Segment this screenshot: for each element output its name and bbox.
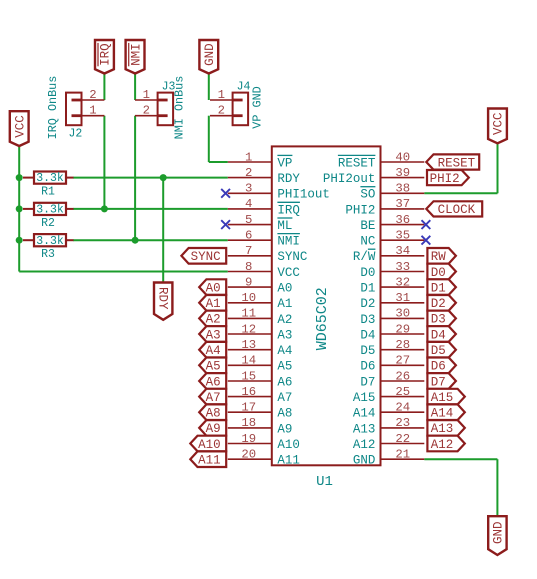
label D2 (pin 31) bbox=[427, 295, 456, 311]
svg-text:2: 2 bbox=[218, 104, 225, 118]
label A9 (pin 18) bbox=[199, 420, 226, 436]
svg-text:A13: A13 bbox=[431, 422, 454, 436]
svg-text:A4: A4 bbox=[277, 344, 292, 358]
svg-text:A6: A6 bbox=[277, 375, 292, 389]
label RESET (pin 40) bbox=[426, 154, 479, 170]
wire NMI flag stem to J3 pin 1 bbox=[134, 73, 136, 100]
label A7 (pin 16) bbox=[199, 389, 226, 405]
svg-text:NMI OnBus: NMI OnBus bbox=[173, 76, 187, 140]
wire R3 output to CPU pin 6 (NMI net) bbox=[73, 239, 228, 241]
label RW (pin 34) bbox=[427, 248, 456, 264]
svg-text:15: 15 bbox=[241, 369, 256, 383]
svg-text:D0: D0 bbox=[431, 266, 446, 280]
svg-text:PHI2: PHI2 bbox=[345, 203, 375, 217]
label D1 (pin 32) bbox=[427, 279, 456, 295]
svg-text:R1: R1 bbox=[41, 186, 55, 199]
svg-text:D4: D4 bbox=[360, 328, 375, 342]
label D4 (pin 29) bbox=[427, 326, 456, 342]
svg-text:1: 1 bbox=[143, 88, 150, 102]
svg-text:BE: BE bbox=[360, 219, 375, 233]
svg-text:A9: A9 bbox=[206, 422, 221, 436]
svg-text:PHI2: PHI2 bbox=[430, 172, 460, 186]
svg-text:A7: A7 bbox=[277, 391, 292, 405]
svg-text:34: 34 bbox=[395, 244, 410, 258]
pin 12 A3 (left) bbox=[228, 322, 293, 342]
label A14 (pin 24) bbox=[427, 404, 464, 420]
svg-text:A8: A8 bbox=[206, 407, 221, 421]
pin 37 PHI2 (right) bbox=[345, 197, 424, 217]
svg-text:A10: A10 bbox=[277, 438, 300, 452]
svg-text:D5: D5 bbox=[431, 344, 446, 358]
svg-text:A15: A15 bbox=[431, 391, 454, 405]
svg-text:9: 9 bbox=[245, 275, 252, 289]
pin 28 D5 (right) bbox=[360, 338, 424, 358]
flag NMI bbox=[126, 40, 145, 74]
connector J2 bbox=[46, 76, 105, 141]
connector J4 bbox=[210, 81, 264, 129]
svg-text:VP: VP bbox=[277, 156, 292, 170]
pin 16 A7 (left) bbox=[228, 385, 293, 405]
svg-text:WD65C02: WD65C02 bbox=[314, 287, 331, 350]
svg-text:A12: A12 bbox=[353, 438, 376, 452]
svg-text:CLOCK: CLOCK bbox=[438, 203, 476, 217]
pin 21 GND (right) bbox=[353, 448, 424, 468]
svg-text:23: 23 bbox=[395, 416, 410, 430]
svg-text:20: 20 bbox=[241, 448, 256, 462]
svg-text:29: 29 bbox=[395, 322, 410, 336]
svg-text:30: 30 bbox=[395, 307, 410, 321]
svg-text:VCC: VCC bbox=[277, 266, 300, 280]
label D3 (pin 30) bbox=[427, 311, 456, 327]
svg-text:NMI: NMI bbox=[277, 235, 300, 249]
pin 23 A13 (right) bbox=[353, 416, 424, 436]
svg-text:PHI1out: PHI1out bbox=[277, 188, 330, 202]
wire VCC right flag down and left to CPU pin 38 (SO) bbox=[424, 144, 497, 194]
svg-text:16: 16 bbox=[241, 385, 256, 399]
svg-text:GND: GND bbox=[203, 43, 217, 66]
svg-text:A1: A1 bbox=[277, 297, 292, 311]
pin 26 D7 (right) bbox=[360, 369, 424, 389]
svg-text:13: 13 bbox=[241, 338, 256, 352]
junction VCC rail / R2 bbox=[16, 205, 23, 212]
svg-text:A0: A0 bbox=[206, 281, 221, 295]
svg-text:U1: U1 bbox=[316, 474, 333, 490]
label A6 (pin 15) bbox=[199, 373, 226, 389]
wire RDY drop from R1 net down to RDY flag bbox=[162, 178, 164, 283]
label A13 (pin 23) bbox=[427, 420, 464, 436]
wire R2 output to CPU pin 4 (IRQ net) bbox=[73, 208, 228, 210]
svg-text:J4: J4 bbox=[237, 81, 251, 94]
svg-text:A11: A11 bbox=[277, 454, 300, 468]
svg-text:D1: D1 bbox=[431, 281, 446, 295]
svg-text:SYNC: SYNC bbox=[191, 250, 221, 264]
svg-text:R/W: R/W bbox=[353, 250, 376, 264]
svg-text:38: 38 bbox=[395, 182, 410, 196]
pin 7 SYNC (left) bbox=[228, 244, 308, 264]
svg-text:19: 19 bbox=[241, 432, 256, 446]
svg-text:IRQ: IRQ bbox=[277, 203, 300, 217]
pin 30 D3 (right) bbox=[360, 307, 424, 327]
svg-text:A14: A14 bbox=[353, 407, 376, 421]
svg-text:A15: A15 bbox=[353, 391, 376, 405]
svg-text:D0: D0 bbox=[360, 266, 375, 280]
pin 25 A15 (right) bbox=[353, 385, 424, 405]
label SYNC (pin 7) bbox=[181, 248, 226, 264]
pin 2 RDY (left) bbox=[228, 166, 301, 186]
label A10 (pin 19) bbox=[190, 436, 226, 452]
svg-text:R2: R2 bbox=[41, 217, 55, 230]
wire J2 pin 1 down to IRQ net junction bbox=[103, 116, 105, 209]
svg-text:33: 33 bbox=[395, 260, 410, 274]
svg-text:RDY: RDY bbox=[155, 287, 169, 310]
pin 32 D1 (right) bbox=[360, 275, 424, 295]
svg-text:GND: GND bbox=[353, 454, 376, 468]
svg-text:D3: D3 bbox=[360, 313, 375, 327]
svg-text:IRQ OnBus: IRQ OnBus bbox=[46, 76, 60, 140]
pin 22 A12 (right) bbox=[353, 432, 424, 452]
pin 5 ML (left) bbox=[228, 213, 293, 233]
svg-text:RESET: RESET bbox=[438, 156, 476, 170]
svg-text:1: 1 bbox=[218, 88, 225, 102]
svg-text:D3: D3 bbox=[431, 313, 446, 327]
pin 38 SO (right) bbox=[360, 182, 424, 202]
svg-text:27: 27 bbox=[395, 354, 410, 368]
svg-text:A5: A5 bbox=[206, 360, 221, 374]
svg-text:1: 1 bbox=[245, 150, 252, 164]
svg-text:12: 12 bbox=[241, 322, 256, 336]
pin 17 A8 (left) bbox=[228, 401, 293, 421]
label CLOCK (pin 37) bbox=[426, 201, 482, 217]
label A12 (pin 22) bbox=[427, 436, 464, 452]
pin 1 VP (left) bbox=[228, 150, 293, 170]
svg-text:28: 28 bbox=[395, 338, 410, 352]
junction RDY net bbox=[160, 174, 167, 181]
svg-text:A2: A2 bbox=[277, 313, 292, 327]
junction NMI net / J3 bbox=[132, 237, 139, 244]
no-connect pin 3 PHI1out bbox=[221, 189, 230, 198]
pin 20 A11 (left) bbox=[228, 448, 300, 468]
connector J3 bbox=[135, 76, 187, 140]
wire J4 pin 2 down and right to CPU pin 1 (VP) bbox=[209, 116, 228, 162]
svg-text:2: 2 bbox=[89, 88, 96, 102]
svg-text:D4: D4 bbox=[431, 328, 446, 342]
label A11 (pin 20) bbox=[190, 451, 226, 467]
no-connect pin 36 BE bbox=[422, 220, 431, 229]
svg-text:14: 14 bbox=[241, 354, 256, 368]
svg-text:2: 2 bbox=[143, 104, 150, 118]
svg-text:RDY: RDY bbox=[277, 172, 300, 186]
wire J3 pin 2 down to NMI net junction bbox=[134, 116, 136, 241]
svg-text:3.3k: 3.3k bbox=[36, 172, 64, 185]
svg-text:17: 17 bbox=[241, 401, 256, 415]
svg-text:VCC: VCC bbox=[13, 115, 27, 138]
svg-text:A12: A12 bbox=[431, 438, 454, 452]
svg-text:A3: A3 bbox=[206, 328, 221, 342]
pin 3 PHI1out (left) bbox=[228, 182, 330, 202]
wire R1 output to CPU pin 2 (RDY net) bbox=[73, 177, 228, 179]
svg-text:32: 32 bbox=[395, 275, 410, 289]
label A3 (pin 12) bbox=[199, 326, 226, 342]
svg-text:3.3k: 3.3k bbox=[36, 235, 64, 248]
pin 4 IRQ (left) bbox=[228, 197, 300, 217]
pin 24 A14 (right) bbox=[353, 401, 424, 421]
svg-text:A0: A0 bbox=[277, 282, 292, 296]
pin 35 NC (right) bbox=[360, 229, 424, 249]
power flag GND bottom-right bbox=[488, 516, 506, 555]
svg-text:39: 39 bbox=[395, 166, 410, 180]
svg-text:NC: NC bbox=[360, 235, 375, 249]
label D6 (pin 27) bbox=[427, 358, 456, 374]
pin 29 D4 (right) bbox=[360, 322, 424, 342]
pin 19 A10 (left) bbox=[228, 432, 300, 452]
svg-text:31: 31 bbox=[395, 291, 410, 305]
svg-text:VCC: VCC bbox=[492, 112, 506, 135]
resistor R2 3.3k bbox=[23, 203, 74, 230]
label A15 (pin 25) bbox=[427, 389, 464, 405]
svg-text:NMI: NMI bbox=[129, 43, 143, 66]
label A8 (pin 17) bbox=[199, 404, 226, 420]
pin 33 D0 (right) bbox=[360, 260, 424, 280]
label PHI2 (pin 39) bbox=[427, 170, 469, 186]
label D0 (pin 33) bbox=[427, 264, 456, 280]
power flag GND top bbox=[199, 40, 218, 74]
svg-text:D2: D2 bbox=[360, 297, 375, 311]
pin 11 A2 (left) bbox=[228, 307, 293, 327]
pin 31 D2 (right) bbox=[360, 291, 424, 311]
svg-text:A11: A11 bbox=[198, 454, 221, 468]
svg-text:A2: A2 bbox=[206, 313, 221, 327]
svg-text:11: 11 bbox=[241, 307, 256, 321]
svg-text:SO: SO bbox=[360, 188, 375, 202]
svg-text:A13: A13 bbox=[353, 422, 376, 436]
svg-text:RW: RW bbox=[431, 250, 447, 264]
svg-text:A10: A10 bbox=[198, 438, 221, 452]
svg-text:A9: A9 bbox=[277, 422, 292, 436]
label A0 (pin 9) bbox=[199, 279, 226, 295]
svg-text:A7: A7 bbox=[206, 391, 221, 405]
op CPU U1 WD65C02 body bbox=[272, 146, 381, 490]
pin 36 BE (right) bbox=[360, 213, 424, 233]
resistor R1 3.3k bbox=[23, 172, 74, 199]
wire VCC rail from VCC flag down to pin8 row bbox=[19, 146, 228, 272]
pin 40 RESET (right) bbox=[338, 150, 424, 170]
svg-text:21: 21 bbox=[395, 448, 410, 462]
svg-text:ML: ML bbox=[277, 219, 292, 233]
pin 39 PHI2out (right) bbox=[323, 166, 424, 186]
wire GND flag stem to J4 pin 1 bbox=[208, 73, 210, 100]
svg-text:RESET: RESET bbox=[338, 156, 376, 170]
svg-text:36: 36 bbox=[395, 213, 410, 227]
pin 27 D6 (right) bbox=[360, 354, 424, 374]
svg-text:D2: D2 bbox=[431, 297, 446, 311]
svg-text:18: 18 bbox=[241, 416, 256, 430]
svg-text:2: 2 bbox=[245, 166, 252, 180]
wire IRQ flag stem to J2 pin 2 bbox=[103, 73, 105, 100]
svg-text:VP GND: VP GND bbox=[250, 86, 264, 128]
label D5 (pin 28) bbox=[427, 342, 456, 358]
svg-text:A8: A8 bbox=[277, 407, 292, 421]
pin 13 A4 (left) bbox=[228, 338, 293, 358]
no-connect pin 5 ML bbox=[221, 220, 230, 229]
svg-text:7: 7 bbox=[245, 244, 252, 258]
svg-text:D7: D7 bbox=[431, 375, 446, 389]
svg-text:3: 3 bbox=[245, 182, 252, 196]
svg-text:40: 40 bbox=[395, 150, 410, 164]
pin 18 A9 (left) bbox=[228, 416, 293, 436]
svg-text:26: 26 bbox=[395, 369, 410, 383]
svg-text:D5: D5 bbox=[360, 344, 375, 358]
svg-text:37: 37 bbox=[395, 197, 410, 211]
svg-text:6: 6 bbox=[245, 229, 252, 243]
pin 8 VCC (left) bbox=[228, 260, 300, 280]
label A1 (pin 10) bbox=[199, 295, 226, 311]
svg-text:35: 35 bbox=[395, 229, 410, 243]
svg-text:SYNC: SYNC bbox=[277, 250, 307, 264]
svg-text:A5: A5 bbox=[277, 360, 292, 374]
pin 6 NMI (left) bbox=[228, 229, 300, 249]
svg-text:4: 4 bbox=[245, 197, 252, 211]
pin 10 A1 (left) bbox=[228, 291, 293, 311]
svg-text:IRQ: IRQ bbox=[99, 43, 113, 66]
svg-text:D7: D7 bbox=[360, 375, 375, 389]
label A2 (pin 11) bbox=[199, 311, 226, 327]
svg-text:25: 25 bbox=[395, 385, 410, 399]
pin 9 A0 (left) bbox=[228, 275, 293, 295]
svg-text:R3: R3 bbox=[41, 248, 55, 261]
svg-text:1: 1 bbox=[89, 104, 96, 118]
svg-text:GND: GND bbox=[492, 521, 506, 544]
svg-text:5: 5 bbox=[245, 213, 252, 227]
svg-text:22: 22 bbox=[395, 432, 410, 446]
svg-text:A4: A4 bbox=[206, 344, 221, 358]
svg-text:A1: A1 bbox=[206, 297, 221, 311]
no-connect pin 35 NC bbox=[422, 236, 431, 245]
svg-text:D1: D1 bbox=[360, 282, 375, 296]
pin 34 R/W (right) bbox=[353, 244, 424, 264]
svg-text:8: 8 bbox=[245, 260, 252, 274]
svg-text:A3: A3 bbox=[277, 328, 292, 342]
flag RDY (hanging) bbox=[154, 283, 172, 320]
pin 14 A5 (left) bbox=[228, 354, 293, 374]
svg-text:24: 24 bbox=[395, 401, 410, 415]
svg-text:A14: A14 bbox=[431, 407, 454, 421]
junction IRQ net / J2 bbox=[101, 205, 108, 212]
label A4 (pin 13) bbox=[199, 342, 226, 358]
junction VCC rail / R3 bbox=[16, 237, 23, 244]
svg-text:D6: D6 bbox=[360, 360, 375, 374]
label D7 (pin 26) bbox=[427, 373, 456, 389]
wire CPU pin 21 (GND) right and down to GND flag bbox=[424, 459, 497, 516]
flag IRQ bbox=[95, 40, 114, 74]
power flag VCC top-right bbox=[488, 109, 507, 144]
svg-text:J2: J2 bbox=[69, 128, 83, 141]
pin 15 A6 (left) bbox=[228, 369, 293, 389]
junction VCC rail / R1 bbox=[16, 174, 23, 181]
svg-text:10: 10 bbox=[241, 291, 256, 305]
resistor R3 3.3k bbox=[23, 234, 74, 261]
label A5 (pin 14) bbox=[199, 358, 226, 374]
power flag VCC top-left bbox=[10, 111, 29, 146]
svg-text:PHI2out: PHI2out bbox=[323, 172, 376, 186]
svg-text:3.3k: 3.3k bbox=[36, 204, 64, 217]
svg-text:A6: A6 bbox=[206, 375, 221, 389]
svg-text:D6: D6 bbox=[431, 360, 446, 374]
